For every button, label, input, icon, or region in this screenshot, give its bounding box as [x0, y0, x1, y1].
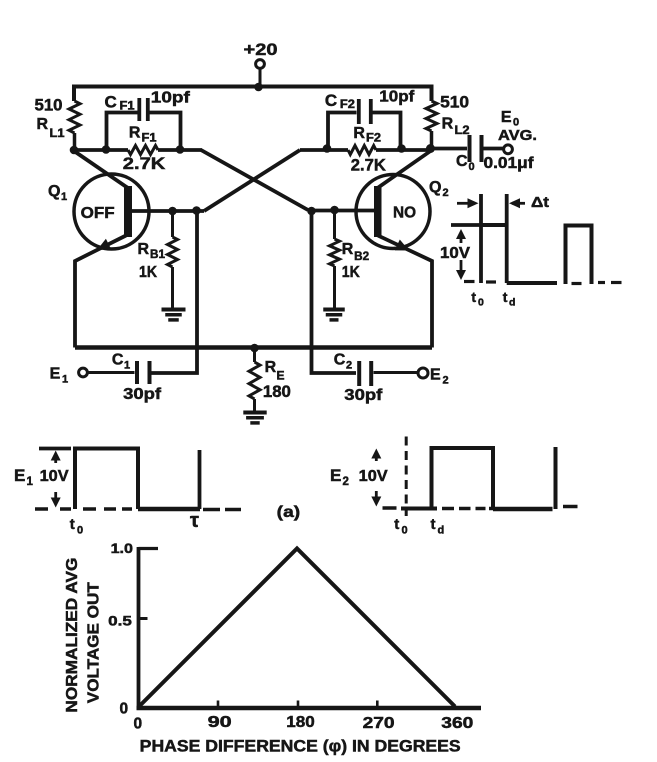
resistor RB1: [168, 211, 178, 309]
label AVG.: [498, 127, 537, 144]
label 1.0: [111, 540, 134, 556]
waveform Eo: 10V arrow: [456, 229, 466, 280]
ground: RB2: [323, 310, 345, 320]
capacitor C2: [359, 361, 371, 386]
svg-text:Q: Q: [48, 183, 60, 200]
svg-text:1.0: 1.0: [111, 540, 134, 556]
label E1: [50, 366, 69, 386]
svg-text:E: E: [430, 367, 441, 384]
label RF2: [353, 125, 381, 145]
svg-text:B1: B1: [150, 249, 166, 261]
svg-text:R: R: [138, 241, 150, 258]
waveform E1: dashes under pulse: [83, 507, 132, 511]
graph: x tick 270: [376, 701, 379, 708]
terminal E2: [418, 368, 428, 378]
svg-text:C: C: [334, 352, 346, 369]
x axis title: [140, 738, 461, 756]
wire: Q2 base dropper to C2: [312, 211, 357, 373]
waveform Eo: delta-t left arrow: [457, 198, 479, 208]
svg-text:0.01μf: 0.01μf: [484, 155, 535, 172]
label td (E2): [431, 516, 445, 537]
label t0 (E1): [70, 516, 83, 537]
svg-text:d: d: [438, 525, 445, 537]
ground: RE: [243, 413, 266, 423]
label 270: [363, 715, 395, 732]
label RB2: [342, 241, 369, 263]
value label 10pf (CF1): [151, 90, 191, 107]
waveform Eo: 10V reference bar: [451, 223, 481, 227]
svg-text:2.7K: 2.7K: [351, 157, 386, 175]
junction dot: C1 dropper at Q1 base: [192, 206, 201, 215]
waveform Eo: pulse1 top: [481, 223, 507, 227]
svg-text:E: E: [277, 369, 285, 383]
svg-text:d: d: [509, 297, 515, 309]
svg-text:0: 0: [402, 525, 408, 537]
label RL1: [37, 116, 66, 140]
waveform E1: low solid baseline: [138, 507, 200, 512]
svg-text:Δt: Δt: [531, 194, 549, 211]
label Q2: [429, 179, 449, 199]
svg-text:10V: 10V: [440, 245, 471, 262]
label tau (E1): [190, 510, 199, 532]
wire: Q2 collector node line: [300, 148, 431, 152]
graph: y axis: [137, 547, 141, 708]
svg-text:τ: τ: [190, 510, 199, 532]
wire: CF1 right branch: [150, 113, 181, 149]
svg-text:(a): (a): [277, 504, 301, 521]
waveform Eo: t0 tick / rising edge: [479, 194, 483, 283]
junction dot: supply on top rail: [254, 83, 263, 92]
capacitor CF1: [139, 98, 148, 121]
waveform Eo: td tick / falling edge: [505, 194, 509, 283]
svg-text:2.7K: 2.7K: [123, 155, 166, 173]
label (a): [277, 504, 301, 521]
svg-text:E: E: [50, 366, 61, 383]
svg-text:1: 1: [62, 374, 68, 386]
node: Q1 collector: [70, 146, 79, 155]
wire: +20 terminal to top rail: [259, 68, 262, 88]
svg-text:180: 180: [263, 383, 291, 401]
waveform E2: baseline through t0: [401, 507, 437, 511]
resistor RB2: [330, 211, 340, 308]
label CF2: [325, 91, 355, 111]
svg-text:1: 1: [124, 360, 130, 372]
value label 10pf (CF2): [379, 89, 415, 106]
svg-text:R: R: [265, 359, 277, 376]
transistor Q1 base bar: [124, 186, 132, 237]
svg-text:t: t: [471, 289, 476, 305]
label NO (Q2 state): [393, 205, 416, 222]
label 0.5: [108, 613, 132, 629]
label E1 (waveform): [14, 466, 34, 488]
svg-text:0: 0: [478, 297, 484, 309]
svg-text:Q: Q: [429, 179, 441, 196]
wire: CF1 left branch: [107, 113, 138, 149]
wire: Q2 collector lead: [378, 151, 431, 188]
label RE: [265, 359, 285, 383]
label 10V (E2): [359, 468, 389, 485]
svg-text:L2: L2: [455, 125, 470, 137]
svg-text:2: 2: [443, 375, 449, 387]
value label 30pf (C2): [344, 387, 383, 404]
label 0 (y axis): [120, 701, 129, 718]
waveform E1: leading dashes: [35, 507, 71, 511]
svg-text:C: C: [112, 352, 124, 369]
svg-text:C: C: [456, 153, 468, 170]
svg-text:E: E: [330, 466, 341, 485]
wire: Q1 base lead: [132, 209, 204, 213]
svg-text:F2: F2: [366, 133, 381, 145]
node: Q2 collector / output: [426, 144, 435, 153]
Q2 emitter arrow: [395, 240, 409, 251]
junction dot: CF2 right: [397, 144, 406, 153]
graph: triangle response curve: [139, 549, 455, 707]
svg-text:R: R: [342, 241, 354, 258]
+20 supply terminal: [256, 60, 265, 69]
resistor RF2: [348, 146, 376, 155]
label Q1: [48, 183, 67, 203]
label td (Eo): [503, 289, 516, 309]
svg-text:NO: NO: [393, 205, 416, 222]
wire: Q2 emitter lead: [378, 236, 432, 348]
junction dot: RE on emitter rail: [250, 344, 259, 353]
wire: top supply rail: [74, 87, 432, 102]
svg-text:C: C: [105, 93, 117, 112]
svg-text:t: t: [503, 289, 508, 305]
label C0: [456, 153, 475, 173]
svg-text:510: 510: [440, 93, 469, 112]
graph: 0.5 tick: [139, 617, 148, 620]
graph: x axis: [137, 706, 482, 711]
svg-text:360: 360: [441, 715, 473, 732]
svg-text:+20: +20: [244, 40, 278, 59]
waveform E2: t0 dashed vertical: [405, 437, 408, 517]
svg-text:R: R: [442, 116, 454, 133]
svg-text:AVG.: AVG.: [498, 127, 537, 144]
svg-text:R: R: [353, 125, 365, 142]
label RL2: [442, 116, 470, 138]
resistor RE: [249, 348, 260, 412]
waveform E2: second rising tick: [554, 447, 558, 509]
svg-text:E: E: [14, 466, 25, 485]
label 360: [441, 715, 473, 732]
junction dot: C2 dropper at Q2 base: [307, 207, 316, 216]
value label 510 (RL1): [35, 96, 63, 115]
wire: Q1 collector node line: [74, 148, 202, 152]
svg-text:NORMALIZED AVG: NORMALIZED AVG: [64, 558, 81, 713]
svg-text:F2: F2: [340, 99, 355, 111]
svg-text:270: 270: [363, 715, 395, 732]
svg-text:30pf: 30pf: [123, 386, 162, 403]
waveform E1: pulse: [75, 449, 138, 510]
svg-text:30pf: 30pf: [344, 387, 383, 404]
svg-text:F1: F1: [142, 133, 158, 145]
svg-text:0: 0: [120, 701, 129, 718]
svg-text:10pf: 10pf: [379, 89, 415, 106]
wire: Q2 base lead: [308, 209, 374, 213]
waveform E2: leading dash: [383, 506, 397, 510]
value label 2.7K (RF2): [351, 157, 386, 175]
svg-text:t: t: [431, 516, 436, 533]
wire: Q1 emitter lead: [75, 236, 126, 348]
y axis title NORMALIZED AVG: [64, 558, 81, 713]
label t0 (Eo): [471, 289, 484, 309]
label E2: [430, 367, 449, 387]
value label 510 (RL2): [440, 93, 469, 112]
svg-text:90: 90: [208, 714, 232, 731]
label 0 (x axis): [134, 716, 143, 733]
waveform E2: dashes under pulse: [442, 507, 493, 511]
capacitor CF2: [359, 99, 371, 124]
label C2: [334, 352, 352, 372]
label E0: [501, 109, 519, 129]
svg-text:R: R: [37, 116, 49, 133]
wire: C0 to E0 terminal: [484, 147, 504, 151]
label 180: [286, 714, 315, 731]
ground: RB1: [162, 310, 186, 320]
svg-text:R: R: [129, 125, 141, 142]
svg-text:B2: B2: [354, 251, 369, 263]
label OFF (Q1 state): [81, 205, 115, 222]
svg-text:C: C: [325, 91, 337, 110]
svg-text:t: t: [70, 516, 75, 533]
transistor Q2 base bar: [374, 186, 382, 237]
svg-text:0: 0: [77, 525, 83, 537]
svg-text:E: E: [501, 109, 512, 126]
svg-text:2: 2: [443, 187, 449, 199]
wire: C2 to E2 terminal: [374, 371, 419, 374]
waveform E2: trailing dash: [563, 505, 578, 509]
waveform Eo: baseline low solid: [507, 281, 557, 285]
label delta-t: [531, 194, 549, 211]
waveform E2: pulse: [432, 448, 494, 508]
svg-text:t: t: [394, 516, 399, 533]
value label 0.01uf (C0): [484, 155, 535, 172]
svg-text:180: 180: [286, 714, 315, 731]
label t0 (E2): [394, 516, 407, 537]
wire: emitter rail: [75, 345, 432, 350]
resistor RL2: [426, 101, 437, 148]
waveform Eo: baseline dashes: [464, 280, 496, 284]
junction dot: RB2 at Q2 base: [330, 206, 339, 215]
capacitor C0: [470, 135, 482, 162]
junction dot: CF1 left: [102, 145, 111, 154]
value label 30pf (C1): [123, 386, 162, 403]
junction dot: RB1 at Q1 base: [168, 207, 177, 216]
svg-text:10V: 10V: [359, 468, 389, 485]
y axis title VOLTAGE OUT: [85, 582, 102, 703]
capacitor C1: [137, 361, 150, 384]
waveform Eo: trailing dashes: [572, 283, 622, 284]
resistor RF1: [128, 146, 158, 155]
waveform Eo: pulse2: [566, 226, 592, 285]
transistor Q2 body: [356, 175, 430, 249]
svg-text:0: 0: [134, 716, 143, 733]
Q1 emitter arrow: [97, 239, 111, 250]
+20 supply label: [244, 40, 278, 59]
label C1: [112, 352, 130, 372]
svg-text:F1: F1: [120, 101, 136, 113]
svg-text:1K: 1K: [139, 264, 157, 281]
wire: CF2 left branch: [328, 113, 357, 149]
waveform E1: trailing dashes: [203, 508, 241, 512]
junction dot: CF1 right: [176, 145, 185, 154]
waveform E1: 10V reference bar: [39, 447, 71, 451]
label E2 (waveform): [330, 466, 349, 488]
svg-text:0.5: 0.5: [108, 613, 132, 629]
svg-text:10V: 10V: [40, 468, 70, 485]
waveform E1: tau tick: [198, 450, 202, 509]
svg-text:OFF: OFF: [81, 205, 115, 222]
graph: x tick 90: [217, 701, 220, 708]
terminal E1: [79, 368, 88, 377]
resistor RL1: [69, 101, 80, 148]
wire: Q1 base dropper to C1: [152, 211, 198, 373]
svg-text:VOLTAGE OUT: VOLTAGE OUT: [85, 582, 102, 703]
graph: x tick 180: [297, 701, 300, 708]
value label 1K (RB1): [139, 264, 157, 281]
svg-text:1: 1: [61, 191, 67, 203]
waveform E2: 10V arrow: [371, 449, 381, 507]
label 10V (E1): [40, 468, 70, 485]
wire: E1 terminal to C1: [88, 371, 135, 374]
svg-text:L1: L1: [50, 128, 66, 140]
junction dot: CF2 left: [323, 144, 332, 153]
value label 180 (RE): [263, 383, 291, 401]
waveform E2: low solid baseline: [493, 507, 553, 512]
svg-text:510: 510: [35, 96, 63, 115]
svg-text:1K: 1K: [342, 264, 360, 281]
label CF1: [105, 93, 136, 113]
transistor Q1 body: [74, 174, 149, 249]
label RB1: [138, 241, 166, 261]
value label 1K (RB2): [342, 264, 360, 281]
svg-text:2: 2: [346, 360, 352, 372]
waveform Eo: delta-t right arrow: [509, 198, 525, 208]
waveform E1: 10V arrow: [51, 451, 61, 508]
label 10V (Eo): [440, 245, 471, 262]
svg-text:10pf: 10pf: [151, 90, 191, 107]
label 90: [208, 714, 232, 731]
svg-text:PHASE DIFFERENCE (φ) IN DEGREE: PHASE DIFFERENCE (φ) IN DEGREES: [140, 738, 461, 756]
label RF1: [129, 125, 157, 145]
wire: cross-coupling Q2 collector to Q1 base: [204, 150, 300, 211]
svg-text:2: 2: [343, 476, 349, 488]
wire: cross-coupling Q1 collector to Q2 base: [201, 150, 308, 210]
svg-text:1: 1: [27, 476, 34, 488]
terminal E0: [504, 145, 513, 154]
wire: Q1 collector lead: [74, 151, 128, 188]
svg-text:0: 0: [469, 161, 475, 173]
wire: output node to C0: [431, 147, 468, 151]
value label 2.7K (RF1): [123, 155, 166, 173]
wire: CF2 right branch: [373, 113, 401, 149]
graph: y axis top serif: [139, 547, 159, 550]
